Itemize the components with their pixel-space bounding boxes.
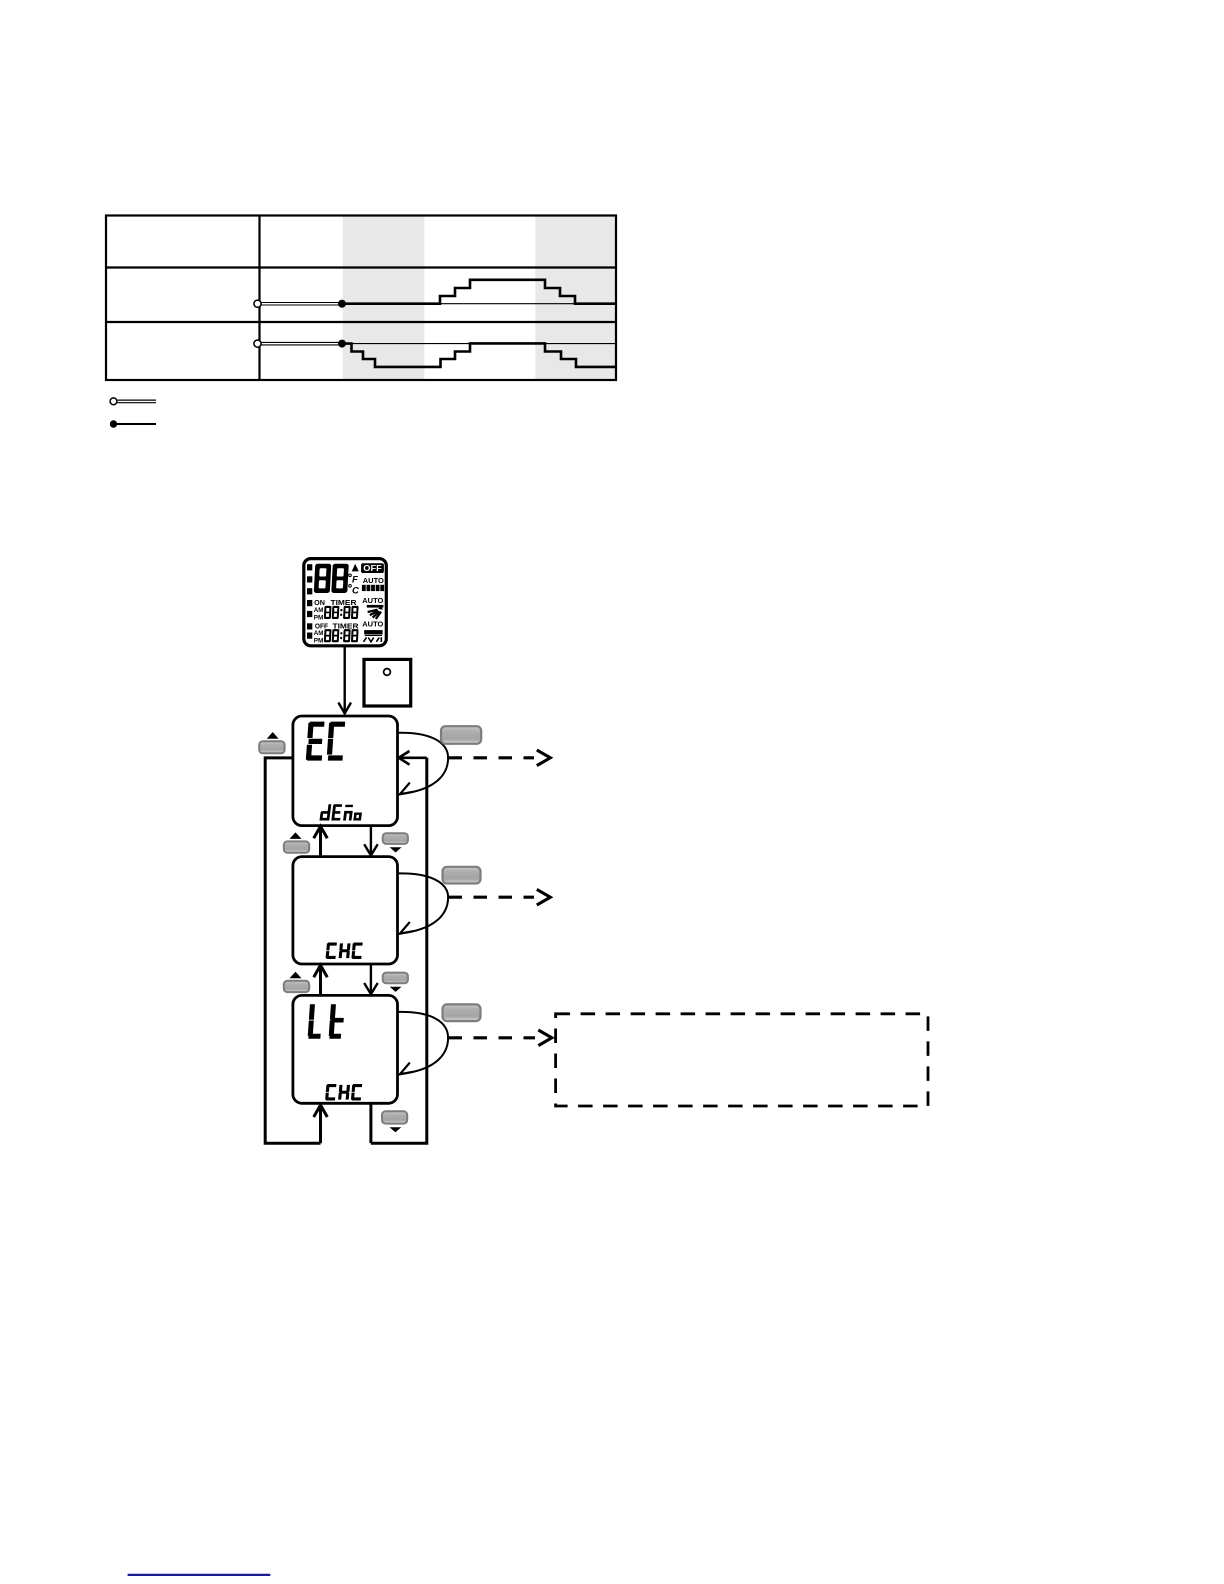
LCD left square markers (307, 564, 312, 639)
row3 double line (previous setting) (259, 341, 342, 343)
up arrow box2->box1 (319, 827, 322, 857)
sensor box circle (384, 669, 391, 676)
flow box 3 (Lt / CHC) (293, 995, 398, 1103)
svg-text:PM: PM (314, 638, 324, 645)
row3 stepped curve (342, 343, 615, 367)
box1 7-seg dEMo (320, 804, 363, 820)
LCD degree-C (349, 585, 352, 588)
box1 mode button (441, 726, 481, 744)
svg-text:AM: AM (314, 607, 324, 614)
up arrow rail->box3 (319, 1106, 322, 1143)
svg-text:AUTO: AUTO (362, 619, 383, 628)
LCD louver swing icon (367, 605, 384, 620)
box3 dashed arrow (449, 1036, 536, 1039)
down button between box2-box3 (383, 973, 408, 984)
row3 open circle (254, 340, 261, 347)
box2 mode button (443, 867, 481, 884)
gray band 2 (535, 217, 615, 380)
row3 thin baseline (342, 343, 615, 345)
down button below box3 (382, 1111, 407, 1123)
LCD off-timer digits 88:88 (324, 629, 359, 642)
gray band 1 (343, 217, 425, 380)
row2 stepped curve (342, 280, 615, 304)
svg-text:PM: PM (314, 614, 324, 621)
box1 cycle arc (397, 733, 448, 794)
row2 thin baseline (342, 303, 615, 305)
flow box 1 (EC / dEMo) (293, 716, 398, 826)
svg-text:OFF: OFF (363, 563, 382, 573)
table row divider 2 (106, 321, 616, 323)
box1 dashed arrow (449, 756, 535, 759)
svg-text:C: C (352, 585, 359, 596)
down button between box1-box2 (383, 833, 408, 844)
sensor box (364, 659, 411, 706)
box3 mode button (443, 1004, 481, 1021)
LCD air-flow marks (364, 637, 382, 642)
LCD degree-F (349, 574, 352, 577)
LCD up-pointer triangle (352, 564, 359, 572)
box3 cycle arc (397, 1012, 448, 1074)
box2 cycle arc (397, 873, 448, 933)
row2 double line (previous setting) (259, 302, 342, 304)
box3 7-seg Lt (308, 1004, 345, 1038)
svg-text:OFF: OFF (315, 621, 329, 630)
LCD OFF badge (361, 563, 384, 573)
svg-text:F: F (352, 575, 358, 586)
arrow right-rail into box1 (400, 756, 427, 759)
wire box3 bottom to rail (369, 1103, 372, 1143)
up button between box1-box2 (290, 832, 302, 839)
dashed result box (556, 1014, 928, 1106)
right rail wire (371, 758, 427, 1143)
row2 filled dot (338, 300, 346, 308)
box2 7-seg CHC (326, 943, 363, 960)
up arrow box3->box2 (319, 966, 322, 996)
legend open-circle symbol (110, 398, 117, 405)
flow box 2 (CHC) (293, 857, 398, 964)
LCD big digit 8 (ones) (331, 564, 349, 593)
up button at box1 left (267, 732, 279, 739)
table row divider 1 (106, 266, 616, 268)
box3 7-seg CHC (325, 1084, 362, 1101)
box2 dashed arrow (449, 896, 535, 899)
LCD big digit 8 (tens) (314, 564, 332, 593)
down arrow box2->box3 (370, 964, 372, 994)
LCD frame (304, 559, 387, 646)
table column divider (258, 216, 260, 381)
svg-text:AUTO: AUTO (363, 576, 384, 585)
svg-text:TIMER: TIMER (333, 621, 360, 630)
box1 7-seg EC (306, 722, 345, 761)
svg-text:AUTO: AUTO (362, 596, 383, 605)
svg-text:AM: AM (314, 630, 324, 637)
svg-text:TIMER: TIMER (331, 598, 358, 607)
row2 open circle (254, 300, 261, 307)
arrowhead into box1 top (338, 703, 351, 714)
up button between box2-box3 (290, 972, 302, 979)
LCD air-outlet bar icon (364, 630, 382, 634)
down arrow box1->box2 (370, 826, 372, 855)
table outer frame (106, 216, 616, 381)
legend filled-dot symbol (110, 420, 117, 427)
LCD fan-speed bars (362, 585, 384, 591)
wire: LCD to box1 (344, 646, 346, 714)
LCD on-timer digits 88:88 (324, 606, 359, 619)
left rail wire (265, 758, 320, 1143)
bottom blue rule (128, 1574, 271, 1576)
row3 filled dot (338, 340, 346, 348)
